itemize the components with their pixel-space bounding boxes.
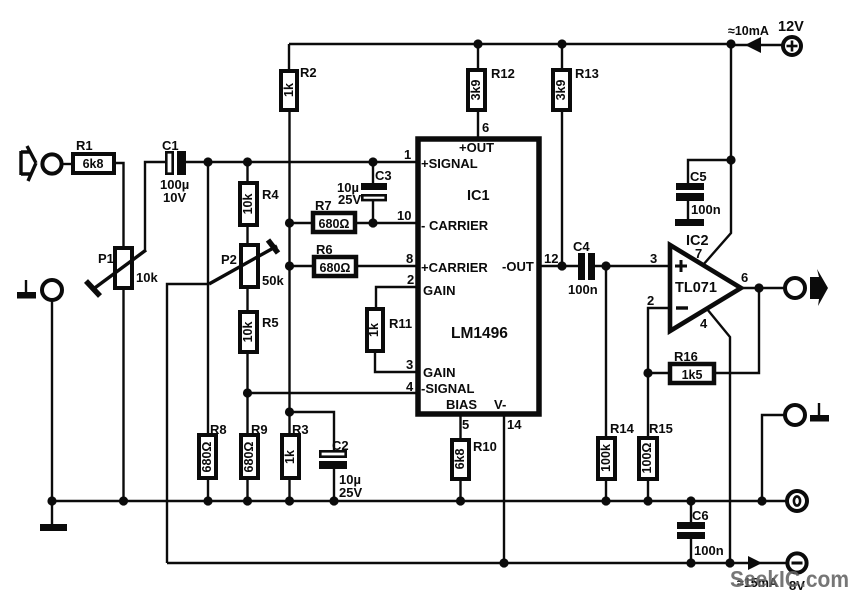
svg-text:R11: R11: [389, 316, 412, 331]
wire R3 top stub: [288, 412, 290, 434]
wire R10 to 0V rail: [459, 479, 461, 501]
node dot rail R3: [285, 496, 294, 505]
svg-text:V-: V-: [494, 397, 506, 412]
input ground terminal: [42, 280, 62, 300]
12V supply terminal: [778, 19, 804, 55]
svg-text:- CARRIER: - CARRIER: [421, 218, 489, 233]
svg-text:R13: R13: [575, 66, 599, 81]
arrow on negative rail: [748, 556, 762, 570]
resistor R15: [639, 421, 673, 479]
svg-text:1k: 1k: [282, 83, 296, 97]
wire pin14 to negative rail: [503, 414, 505, 563]
wire R1 to P1 top: [114, 163, 124, 247]
resistor R13: [553, 66, 599, 110]
potentiometer P1: [86, 248, 158, 296]
wire output ground terminal: [762, 415, 785, 501]
svg-text:R15: R15: [649, 421, 673, 436]
wire R4 top stub: [246, 162, 248, 183]
resistor R7: [313, 198, 355, 232]
node dot output: [754, 283, 763, 292]
node dot rail P1: [119, 496, 128, 505]
wire 12V vertical to op-amp pin7: [703, 44, 731, 265]
resistor R16: [670, 349, 714, 383]
svg-text:P1: P1: [98, 251, 114, 266]
node dot rail output ground: [757, 496, 766, 505]
svg-text:25V: 25V: [338, 192, 361, 207]
svg-text:-SIGNAL: -SIGNAL: [421, 381, 475, 396]
svg-text:100k: 100k: [599, 444, 613, 472]
svg-text:3: 3: [406, 357, 413, 372]
input connector arrow: [21, 146, 36, 181]
node dot rail R9: [243, 496, 252, 505]
svg-text:680Ω: 680Ω: [319, 217, 350, 231]
svg-text:100Ω: 100Ω: [640, 443, 654, 474]
svg-text:P2: P2: [221, 252, 237, 267]
node dot R3 top: [285, 407, 294, 416]
wire pin5 stub: [459, 414, 461, 440]
svg-text:C3: C3: [375, 168, 392, 183]
input terminal circle: [42, 154, 61, 173]
resistor R2: [281, 65, 317, 110]
capacitor C1: [160, 138, 189, 205]
svg-text:R6: R6: [316, 242, 333, 257]
svg-text:8: 8: [406, 251, 413, 266]
svg-text:100n: 100n: [568, 282, 598, 297]
ground symbol output: [810, 403, 829, 422]
resistor R5: [240, 312, 279, 352]
svg-text:100n: 100n: [694, 543, 724, 558]
resistor R1: [73, 138, 114, 173]
svg-text:GAIN: GAIN: [423, 365, 456, 380]
svg-text:6k8: 6k8: [453, 449, 467, 470]
wire R16 left: [648, 372, 670, 374]
wire 0V rail: [52, 500, 787, 502]
wire R6 left: [290, 265, 315, 267]
wire P2 to R5: [246, 287, 248, 312]
capacitor C5: [676, 169, 721, 219]
node dot rail R15: [643, 496, 652, 505]
wire P2 wiper to negative rail: [167, 284, 209, 563]
wire R12 top stub: [477, 44, 479, 70]
svg-text:1k: 1k: [283, 450, 297, 464]
svg-text:680Ω: 680Ω: [242, 442, 256, 473]
svg-text:6: 6: [482, 120, 489, 135]
output ground terminal: [785, 405, 805, 425]
svg-text:680Ω: 680Ω: [200, 442, 214, 473]
capacitor C3: [337, 162, 392, 223]
svg-text:100n: 100n: [691, 202, 721, 217]
svg-text:10k: 10k: [241, 194, 255, 215]
node dot top rail R12: [473, 39, 482, 48]
wire R16 right to output: [714, 288, 759, 373]
svg-text:1k5: 1k5: [682, 368, 703, 382]
svg-text:R4: R4: [262, 187, 279, 202]
wire R9 to 0V rail: [246, 478, 248, 501]
svg-text:C1: C1: [162, 138, 179, 153]
resistor R10: [452, 439, 497, 479]
-8V terminal: [787, 553, 806, 593]
svg-text:680Ω: 680Ω: [320, 261, 351, 275]
node dot R4 tap: [243, 157, 252, 166]
node dot rail C6: [686, 496, 695, 505]
svg-text:3k9: 3k9: [469, 80, 483, 101]
svg-text:50k: 50k: [262, 273, 284, 288]
svg-text:10k: 10k: [136, 270, 158, 285]
potentiometer P2: [209, 240, 284, 288]
wire R14 drop: [605, 266, 607, 438]
0V terminal: [787, 491, 807, 511]
wire R7 right to pin10: [355, 222, 416, 224]
svg-text:+CARRIER: +CARRIER: [421, 260, 488, 275]
ground bar of C5: [675, 219, 704, 226]
svg-text:R14: R14: [610, 421, 635, 436]
resistor R12: [468, 66, 515, 110]
wire carrier net vertical (R2 to R3): [288, 110, 290, 412]
svg-text:R9: R9: [251, 422, 268, 437]
svg-text:2: 2: [647, 293, 654, 308]
svg-text:12: 12: [544, 251, 558, 266]
resistor R11: [367, 309, 412, 351]
wire C4 to op-amp pin3: [595, 265, 670, 267]
svg-text:R5: R5: [262, 315, 279, 330]
wire pin2 to R11: [376, 287, 416, 309]
wire R5 to R9: [246, 352, 248, 434]
capacitor C2: [319, 438, 362, 501]
node dot R16/pin2: [643, 368, 652, 377]
svg-text:R16: R16: [674, 349, 698, 364]
svg-text:3: 3: [650, 251, 657, 266]
svg-text:TL071: TL071: [675, 280, 717, 296]
svg-text:2: 2: [407, 272, 414, 287]
op-amp U-IC2 TL071: [670, 245, 741, 331]
wire op-amp pin2 to R15: [648, 308, 670, 438]
resistor R14: [598, 421, 635, 479]
svg-text:12V: 12V: [778, 19, 804, 35]
svg-text:R2: R2: [300, 65, 317, 80]
ground stem bottom left: [51, 501, 53, 524]
svg-text:+OUT: +OUT: [459, 140, 494, 155]
svg-text:+SIGNAL: +SIGNAL: [421, 156, 478, 171]
svg-text:10: 10: [397, 208, 411, 223]
node dot neg rail pin14: [499, 558, 508, 567]
wire R8 drop: [207, 162, 209, 434]
wire R15 to 0V rail: [647, 479, 649, 501]
wire R6 right to pin8: [356, 265, 416, 267]
node dot C5 branch: [726, 155, 735, 164]
wire R3 node to C2: [290, 412, 335, 451]
resistor R3: [282, 422, 309, 478]
svg-text:SeekIC.com: SeekIC.com: [730, 566, 849, 592]
wire R3 to 0V rail: [288, 478, 290, 501]
svg-text:R12: R12: [491, 66, 515, 81]
wire ground terminal to 0V rail: [51, 300, 53, 501]
svg-text:25V: 25V: [339, 485, 362, 500]
node dot rail R10: [456, 496, 465, 505]
resistor R8: [199, 422, 227, 478]
wire +signal net C1 to IC1 pin1: [186, 161, 416, 163]
node dot neg rail C6: [686, 558, 695, 567]
wire op-amp output: [741, 287, 786, 289]
svg-text:R8: R8: [210, 422, 227, 437]
svg-text:6k8: 6k8: [83, 157, 104, 171]
svg-text:-OUT: -OUT: [502, 259, 534, 274]
ground symbol bottom left: [40, 524, 67, 531]
node dot C3 bottom: [368, 218, 377, 227]
svg-text:≈10mA: ≈10mA: [728, 24, 769, 38]
wire 12V feed: [731, 44, 783, 46]
wire R11 to pin3: [375, 351, 416, 372]
svg-text:GAIN: GAIN: [423, 283, 456, 298]
svg-text:10V: 10V: [163, 190, 186, 205]
svg-text:4: 4: [406, 379, 414, 394]
svg-text:10k: 10k: [241, 322, 255, 343]
wire op-amp pin4 to negative rail: [707, 309, 730, 563]
wire R4 to P2: [246, 225, 248, 245]
node dot neg rail pin4: [725, 558, 734, 567]
svg-text:C4: C4: [573, 239, 590, 254]
node dot R6 left: [285, 261, 294, 270]
resistor R4: [240, 183, 279, 225]
wire C5 branch: [688, 160, 731, 184]
wire pin12 to C4: [539, 265, 578, 267]
svg-text:1k: 1k: [367, 323, 381, 337]
wire pin4 net: [248, 392, 417, 394]
node dot R8 tap: [203, 157, 212, 166]
svg-text:R7: R7: [315, 198, 332, 213]
svg-text:4: 4: [700, 316, 708, 331]
resistor R9: [241, 422, 268, 478]
svg-text:3k9: 3k9: [554, 80, 568, 101]
wire P1 wiper to C1: [145, 162, 166, 252]
svg-text:5: 5: [462, 417, 469, 432]
svg-text:IC1: IC1: [467, 188, 490, 204]
wire R7 left: [290, 222, 314, 224]
svg-text:LM1496: LM1496: [451, 325, 508, 342]
arrow on 12V feed: [745, 37, 761, 53]
IC1 LM1496: [418, 139, 539, 414]
ground symbol at input: [17, 280, 36, 299]
output connector arrow: [810, 269, 828, 306]
node dot top rail R13: [557, 39, 566, 48]
node dot R5/R9/pin4: [243, 388, 252, 397]
output terminal circle: [785, 278, 805, 298]
node dot rail C2: [329, 496, 338, 505]
wire pin6 stub: [477, 110, 479, 137]
node dot rail R14: [601, 496, 610, 505]
wire top supply rail: [289, 43, 731, 45]
node dot top rail 12V: [726, 39, 735, 48]
svg-text:6: 6: [741, 270, 748, 285]
node dot rail left: [47, 496, 56, 505]
capacitor C6: [677, 501, 724, 563]
svg-text:IC2: IC2: [686, 233, 709, 249]
wire R13 to pin12 node: [561, 110, 563, 266]
wire P1 bottom to 0V rail: [122, 288, 124, 501]
wire R2 top stub: [288, 44, 290, 70]
node dot rail R8: [203, 496, 212, 505]
svg-text:R10: R10: [473, 439, 497, 454]
node dot C3 tap: [368, 157, 377, 166]
svg-text:14: 14: [507, 417, 522, 432]
node dot R14 tap: [601, 261, 610, 270]
node dot pin12/R13: [557, 261, 566, 270]
svg-text:C6: C6: [692, 508, 709, 523]
svg-text:C5: C5: [690, 169, 707, 184]
wire R14 to 0V rail: [605, 479, 607, 501]
wire R13 top stub: [561, 44, 563, 70]
svg-text:BIAS: BIAS: [446, 397, 477, 412]
wire input to R1: [62, 163, 72, 165]
capacitor C4: [568, 239, 598, 297]
svg-text:C2: C2: [332, 438, 349, 453]
resistor R6: [314, 242, 356, 276]
svg-text:R1: R1: [76, 138, 93, 153]
wire R8 to 0V rail: [207, 478, 209, 501]
svg-text:1: 1: [404, 147, 411, 162]
svg-text:R3: R3: [292, 422, 309, 437]
node dot R7 left: [285, 218, 294, 227]
wire negative supply rail: [167, 562, 788, 564]
